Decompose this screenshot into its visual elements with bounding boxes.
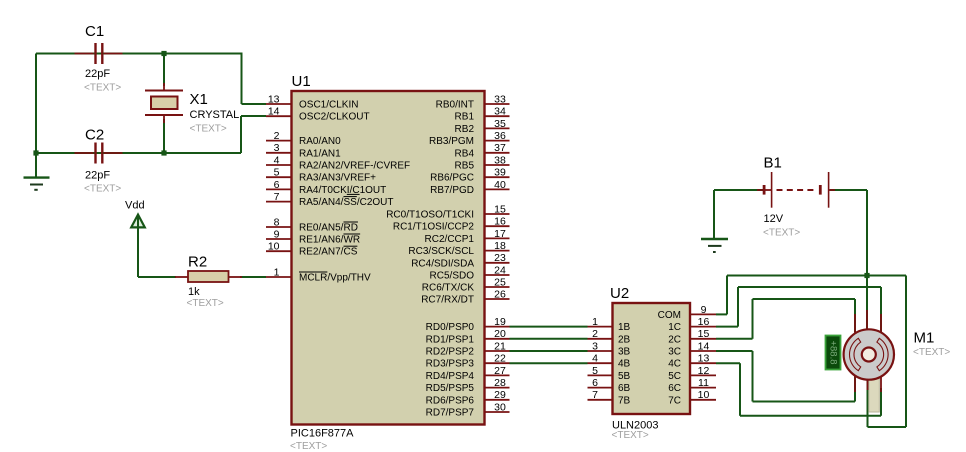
- svg-text:RA4/T0CKI/C1OUT: RA4/T0CKI/C1OUT: [299, 185, 386, 196]
- svg-text:22: 22: [494, 353, 506, 365]
- svg-text:19: 19: [494, 316, 506, 328]
- svg-text:<TEXT>: <TEXT>: [763, 228, 800, 239]
- svg-text:10: 10: [268, 241, 280, 253]
- node A junction: [161, 51, 166, 56]
- svg-text:RD3/PSP3: RD3/PSP3: [426, 359, 475, 370]
- power Vdd: [131, 215, 145, 277]
- svg-text:26: 26: [494, 288, 506, 300]
- svg-text:20: 20: [494, 328, 506, 340]
- svg-text:13: 13: [268, 93, 280, 105]
- motor speed display: [826, 336, 841, 370]
- svg-text:38: 38: [494, 154, 506, 166]
- svg-text:22pF: 22pF: [85, 170, 110, 182]
- svg-text:1: 1: [592, 316, 598, 328]
- svg-text:1: 1: [274, 266, 280, 278]
- wire RD3 to 4B: [510, 362, 588, 364]
- svg-text:RC2/CCP1: RC2/CCP1: [425, 234, 475, 245]
- U1 pin 21 RD2/PSP2: [426, 340, 510, 357]
- svg-text:<TEXT>: <TEXT>: [187, 298, 224, 309]
- svg-text:1B: 1B: [618, 322, 631, 333]
- svg-text:9: 9: [274, 228, 280, 240]
- svg-text:RC3/SCK/SCL: RC3/SCK/SCL: [408, 246, 474, 257]
- wire 1C to motor top-right: [716, 287, 881, 332]
- wire rail to motor top-center: [866, 276, 868, 333]
- motor M1 pins: [855, 310, 881, 392]
- svg-text:<TEXT>: <TEXT>: [290, 441, 327, 452]
- U1 pin 20 RD1/PSP1: [426, 328, 510, 345]
- svg-text:1C: 1C: [668, 322, 681, 333]
- wire RD1 to 2B: [510, 338, 588, 340]
- U1 pin 4 RA2/AN2/VREF-/CVREF: [266, 154, 410, 171]
- svg-text:6: 6: [592, 377, 598, 389]
- U1 pin 3 RA1/AN1: [266, 142, 341, 159]
- node +12V junction: [864, 273, 869, 278]
- svg-text:RD6/PSP6: RD6/PSP6: [426, 395, 475, 406]
- svg-text:RC0/T1OSO/T1CKI: RC0/T1OSO/T1CKI: [386, 210, 474, 221]
- wire Vdd to R2 to MCLR: [138, 218, 266, 277]
- svg-text:40: 40: [494, 179, 506, 191]
- node B junction left: [33, 150, 38, 155]
- U1 pin 1 MCLR/Vpp/THV: [266, 266, 371, 283]
- svg-text:RC6/TX/CK: RC6/TX/CK: [422, 283, 475, 294]
- svg-text:17: 17: [494, 228, 506, 240]
- U1 pin 6 RA4/T0CKI/C1OUT: [266, 179, 386, 196]
- U1 pin 2 RA0/AN0: [266, 130, 341, 147]
- U1 pin 37 RB4: [455, 142, 510, 159]
- U1 pin 40 RB7/PGD: [430, 179, 509, 196]
- crystal X1: [145, 83, 183, 123]
- svg-text:3B: 3B: [618, 347, 631, 358]
- svg-text:X1: X1: [190, 91, 208, 108]
- svg-text:Vdd: Vdd: [125, 200, 145, 212]
- svg-text:7: 7: [592, 389, 598, 401]
- svg-text:15: 15: [494, 203, 506, 215]
- svg-text:RB3/PGM: RB3/PGM: [429, 136, 474, 147]
- U1 pin 30 RD7/PSP7: [426, 401, 510, 418]
- svg-text:13: 13: [698, 353, 710, 365]
- svg-text:34: 34: [494, 106, 506, 118]
- U1 pin 26 RC7/RX/DT: [421, 288, 509, 305]
- U1 pin 35 RB2: [455, 118, 510, 135]
- motor M1 hub: [862, 348, 876, 362]
- svg-text:5: 5: [274, 167, 280, 179]
- U1 pin 29 RD6/PSP6: [426, 389, 510, 406]
- svg-text:22pF: 22pF: [85, 68, 110, 80]
- svg-text:RD4/PSP4: RD4/PSP4: [426, 371, 475, 382]
- U1 pin 24 RC5/SDO: [430, 264, 510, 281]
- svg-text:<TEXT>: <TEXT>: [190, 124, 227, 135]
- ground left: [24, 178, 50, 190]
- svg-text:C2: C2: [85, 127, 104, 144]
- wire C2/XTAL/OSC2 node rail: [36, 116, 266, 178]
- svg-text:6: 6: [274, 179, 280, 191]
- svg-text:14: 14: [268, 106, 280, 118]
- svg-text:R2: R2: [188, 254, 207, 271]
- wire battery right down to rail: [830, 189, 867, 191]
- svg-text:3C: 3C: [668, 347, 681, 358]
- svg-text:6C: 6C: [668, 383, 681, 394]
- U1 pin 36 RB3/PGM: [429, 130, 510, 147]
- svg-text:RA5/AN4/SS/C2OUT: RA5/AN4/SS/C2OUT: [299, 197, 393, 208]
- svg-text:4: 4: [592, 353, 598, 365]
- wire C1/XTAL/OSC1 node top rail: [36, 53, 266, 154]
- svg-text:RB4: RB4: [455, 148, 475, 159]
- U1 pin 5 RA3/AN3/VREF+: [266, 167, 376, 184]
- U2 pin 5 5B: [588, 365, 631, 382]
- U1 pin 9 RE1/AN6/WR: [266, 228, 360, 245]
- svg-text:6B: 6B: [618, 383, 631, 394]
- svg-text:RC4/SDI/SDA: RC4/SDI/SDA: [411, 258, 474, 269]
- svg-text:29: 29: [494, 389, 506, 401]
- svg-text:39: 39: [494, 167, 506, 179]
- svg-text:RA1/AN1: RA1/AN1: [299, 148, 341, 159]
- svg-text:RD1/PSP1: RD1/PSP1: [426, 334, 475, 345]
- svg-text:4C: 4C: [668, 359, 681, 370]
- wire COM to +12V rail: [716, 276, 906, 315]
- U1 pin 15 RC0/T1OSO/T1CKI: [386, 203, 509, 220]
- svg-text:RE1/AN6/WR: RE1/AN6/WR: [299, 235, 360, 246]
- svg-text:B1: B1: [764, 155, 782, 172]
- U1 pin 39 RB6/PGC: [430, 167, 509, 184]
- U2 pin 13 4C: [668, 353, 716, 370]
- svg-text:7C: 7C: [668, 395, 681, 406]
- svg-text:14: 14: [698, 340, 710, 352]
- svg-text:+88.8: +88.8: [827, 340, 838, 364]
- wire 3C to motor bottom-left: [716, 351, 855, 402]
- U1 pin 25 RC6/TX/CK: [422, 276, 510, 293]
- U1 pin 38 RB5: [455, 154, 510, 171]
- U2 pin 12 5C: [668, 365, 716, 382]
- U2 pin 10 7C: [668, 389, 716, 406]
- motor M1 body: [844, 329, 894, 379]
- motor M1 left pole arc: [849, 338, 860, 370]
- svg-text:RB7/PGD: RB7/PGD: [430, 185, 474, 196]
- svg-text:11: 11: [698, 377, 709, 389]
- svg-text:<TEXT>: <TEXT>: [913, 347, 950, 358]
- svg-text:RB6/PGC: RB6/PGC: [430, 173, 474, 184]
- svg-text:4B: 4B: [618, 359, 631, 370]
- svg-text:16: 16: [494, 216, 506, 228]
- svg-text:18: 18: [494, 240, 506, 252]
- svg-text:2: 2: [592, 328, 598, 340]
- U2 pin 15 2C: [668, 328, 716, 345]
- svg-text:9: 9: [701, 304, 707, 316]
- svg-text:MCLR/Vpp/THV: MCLR/Vpp/THV: [299, 273, 371, 284]
- U1 pin 10 RE2/AN7/CS: [266, 241, 358, 258]
- wire battery left to ground: [714, 190, 763, 239]
- resistor R2: [175, 271, 242, 282]
- svg-text:28: 28: [494, 377, 506, 389]
- svg-text:3: 3: [274, 142, 280, 154]
- svg-text:16: 16: [698, 316, 710, 328]
- svg-text:7: 7: [274, 191, 280, 203]
- svg-text:RD0/PSP0: RD0/PSP0: [426, 322, 475, 333]
- svg-text:CRYSTAL: CRYSTAL: [190, 109, 240, 121]
- svg-text:25: 25: [494, 276, 506, 288]
- wire 2C to motor top-left: [716, 299, 855, 339]
- wire RD0 to 1B: [510, 326, 588, 328]
- svg-text:RE2/AN7/CS: RE2/AN7/CS: [299, 247, 358, 258]
- svg-text:PIC16F877A: PIC16F877A: [291, 428, 355, 440]
- svg-text:RD5/PSP5: RD5/PSP5: [426, 383, 475, 394]
- svg-text:15: 15: [698, 328, 710, 340]
- U1 pin 33 RB0/INT: [436, 93, 510, 110]
- svg-text:RD7/PSP7: RD7/PSP7: [426, 408, 475, 419]
- U1 pin 16 RC1/T1OSI/CCP2: [393, 216, 510, 233]
- svg-text:U1: U1: [292, 73, 311, 90]
- svg-text:RE0/AN5/RD: RE0/AN5/RD: [299, 223, 358, 234]
- svg-text:30: 30: [494, 401, 506, 413]
- svg-text:RB0/INT: RB0/INT: [436, 100, 474, 111]
- capacitor C1: [75, 43, 123, 64]
- U1 pin 14 OSC2/CLKOUT: [266, 106, 370, 123]
- svg-text:8: 8: [274, 216, 280, 228]
- U2 pin 14 3C: [668, 340, 716, 357]
- svg-text:37: 37: [494, 142, 506, 154]
- svg-text:23: 23: [494, 252, 506, 264]
- motor M1 shaft: [869, 376, 880, 412]
- svg-text:24: 24: [494, 264, 506, 276]
- svg-text:5C: 5C: [668, 371, 681, 382]
- U2 pin 16 1C: [668, 316, 716, 333]
- svg-text:33: 33: [494, 93, 506, 105]
- U1 pin 23 RC4/SDI/SDA: [411, 252, 509, 269]
- U2 pin 11 6C: [668, 377, 716, 394]
- U1 pin 19 RD0/PSP0: [426, 316, 510, 333]
- driver U2 body: [613, 303, 691, 414]
- svg-text:COM: COM: [658, 310, 681, 321]
- svg-text:RA0/AN0: RA0/AN0: [299, 136, 341, 147]
- wire motor bottom-center tap to +12V rail: [868, 276, 907, 428]
- svg-text:36: 36: [494, 130, 506, 142]
- U2 pin 9 COM: [658, 304, 716, 321]
- svg-text:M1: M1: [914, 330, 935, 347]
- svg-text:RB2: RB2: [455, 124, 475, 135]
- U1 pin 22 RD3/PSP3: [426, 353, 510, 370]
- svg-text:2: 2: [274, 130, 280, 142]
- microcontroller U1 body: [292, 91, 485, 425]
- svg-text:27: 27: [494, 365, 506, 377]
- svg-text:C1: C1: [85, 23, 104, 40]
- U1 pin 13 OSC1/CLKIN: [266, 93, 358, 110]
- U1 pin 7 RA5/AN4/SS/C2OUT: [266, 191, 393, 208]
- U1 pin 17 RC2/CCP1: [425, 228, 510, 245]
- svg-text:5B: 5B: [618, 371, 631, 382]
- svg-text:RC1/T1OSI/CCP2: RC1/T1OSI/CCP2: [393, 222, 475, 233]
- svg-text:1k: 1k: [188, 286, 200, 298]
- svg-text:RA3/AN3/VREF+: RA3/AN3/VREF+: [299, 173, 376, 184]
- svg-text:RD2/PSP2: RD2/PSP2: [426, 347, 475, 358]
- svg-text:RB1: RB1: [455, 112, 475, 123]
- svg-text:RA2/AN2/VREF-/CVREF: RA2/AN2/VREF-/CVREF: [299, 161, 410, 172]
- U2 pin 4 4B: [588, 353, 631, 370]
- node B junction crystal: [161, 150, 166, 155]
- svg-text:<TEXT>: <TEXT>: [84, 184, 121, 195]
- U1 pin 8 RE0/AN5/RD: [266, 216, 358, 233]
- svg-text:21: 21: [494, 340, 506, 352]
- svg-text:4: 4: [274, 154, 280, 166]
- U2 pin 3 3B: [588, 340, 631, 357]
- svg-text:35: 35: [494, 118, 506, 130]
- svg-text:12: 12: [698, 365, 710, 377]
- U1 pin 28 RD5/PSP5: [426, 377, 510, 394]
- U1 pin 18 RC3/SCK/SCL: [408, 240, 509, 257]
- svg-text:OSC1/CLKIN: OSC1/CLKIN: [299, 100, 358, 111]
- svg-text:12V: 12V: [764, 213, 784, 225]
- svg-text:RC5/SDO: RC5/SDO: [430, 271, 475, 282]
- U2 pin 6 6B: [588, 377, 631, 394]
- wire RD2 to 3B: [510, 350, 588, 352]
- svg-text:<TEXT>: <TEXT>: [84, 83, 121, 94]
- battery B1: [757, 172, 835, 208]
- wire 4C to motor bottom-right: [716, 363, 881, 416]
- svg-text:RC7/RX/DT: RC7/RX/DT: [421, 295, 474, 306]
- svg-text:OSC2/CLKOUT: OSC2/CLKOUT: [299, 112, 370, 123]
- U2 pin 1 1B: [588, 316, 631, 333]
- svg-text:RB5: RB5: [455, 161, 475, 172]
- U1 pin 27 RD4/PSP4: [426, 365, 510, 382]
- svg-text:U2: U2: [610, 285, 629, 302]
- motor M1 right pole arc: [877, 338, 888, 370]
- svg-text:2C: 2C: [668, 334, 681, 345]
- svg-text:5: 5: [592, 365, 598, 377]
- svg-text:10: 10: [698, 389, 710, 401]
- capacitor C2: [75, 143, 123, 164]
- svg-text:2B: 2B: [618, 334, 631, 345]
- svg-text:7B: 7B: [618, 395, 631, 406]
- ground battery: [701, 239, 728, 252]
- svg-text:3: 3: [592, 340, 598, 352]
- svg-text:<TEXT>: <TEXT>: [612, 430, 649, 441]
- U2 pin 7 7B: [588, 389, 631, 406]
- U1 pin 34 RB1: [455, 106, 510, 123]
- U2 pin 2 2B: [588, 328, 631, 345]
